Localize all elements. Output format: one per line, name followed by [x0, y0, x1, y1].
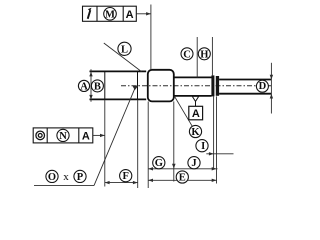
- extension line from tangent line down to bottom: [137, 100, 139, 188]
- svg-text:N: N: [59, 131, 67, 142]
- dimension A/B vertical line: [89, 69, 92, 102]
- leader from bottom frame to extension line: [93, 134, 105, 137]
- svg-text:I: I: [201, 141, 205, 152]
- svg-text:O: O: [48, 172, 56, 183]
- extension line from bulge left face down to bottom: [147, 101, 149, 188]
- dimension line E: [148, 179, 217, 182]
- svg-text:D: D: [259, 81, 267, 92]
- svg-text:L: L: [121, 44, 128, 55]
- balloon D: [256, 80, 268, 92]
- dimension D line at right end: [270, 63, 273, 114]
- balloon E: [176, 171, 188, 183]
- balloon M in frame: [104, 8, 117, 21]
- balloon B: [91, 80, 103, 92]
- svg-text:M: M: [105, 9, 115, 20]
- balloon L: [118, 42, 131, 55]
- centerline: [121, 85, 271, 87]
- svg-text:C: C: [183, 49, 191, 60]
- bottom feature control frame (concentricity | N | A): [33, 128, 93, 143]
- tangent line at bulge transition: [137, 71, 139, 99]
- svg-text:A: A: [192, 108, 200, 120]
- left cylinder end face: [104, 71, 106, 99]
- dimension line F: [105, 181, 138, 184]
- svg-text:K: K: [191, 127, 200, 138]
- extension line groove left edge down: [213, 96, 215, 169]
- svg-text:A: A: [126, 9, 134, 21]
- extension line from top FCF to bulge top: [150, 5, 152, 71]
- svg-text:G: G: [155, 158, 163, 169]
- balloon N in frame: [57, 129, 69, 141]
- leader from O x P to tangent point: [34, 86, 139, 186]
- svg-text:x: x: [63, 171, 69, 183]
- dimension line I (groove width): [206, 152, 233, 155]
- flange bar 2: [216, 76, 219, 96]
- datum feature symbol A on shaft section 2: [189, 96, 203, 119]
- extension line groove right edge down: [216, 96, 218, 183]
- svg-text:J: J: [191, 158, 196, 169]
- concentricity symbol: [36, 131, 45, 140]
- shaft section 2: [174, 77, 212, 96]
- balloon H: [198, 48, 210, 60]
- svg-text:H: H: [200, 49, 208, 60]
- leader from top frame to extension line: [136, 12, 151, 15]
- leader from balloon L to bulge shoulder: [104, 43, 142, 72]
- dimension line G / J: [148, 164, 217, 171]
- svg-text:E: E: [179, 173, 186, 184]
- extension line from bulge right face down to E dimension: [173, 101, 175, 181]
- balloon F: [120, 170, 132, 182]
- svg-text:A: A: [80, 81, 88, 92]
- svg-text:P: P: [77, 172, 84, 183]
- balloon I: [196, 140, 208, 152]
- balloon O: [46, 170, 58, 182]
- left cylinder (shaft section 1): [90, 71, 147, 99]
- extension line C/H left: [196, 37, 198, 78]
- svg-text:F: F: [122, 171, 128, 182]
- extension line from left face down to F dimension: [104, 100, 106, 187]
- bulge (spherical middle section): [148, 70, 174, 102]
- extension line C/H right: [211, 37, 213, 75]
- shaft section 3: [219, 80, 271, 94]
- balloon G: [153, 157, 165, 169]
- runout symbol: [88, 8, 92, 19]
- leader from balloon K to bulge corner: [174, 96, 192, 126]
- balloon P: [74, 170, 86, 182]
- top feature control frame (runout | M | A): [83, 6, 137, 21]
- balloon A: [78, 80, 89, 91]
- balloon C: [181, 48, 193, 60]
- balloon K: [189, 125, 201, 137]
- balloon J: [188, 157, 200, 169]
- svg-text:B: B: [94, 81, 101, 92]
- flange bar 1: [211, 75, 214, 96]
- svg-text:A: A: [82, 130, 90, 142]
